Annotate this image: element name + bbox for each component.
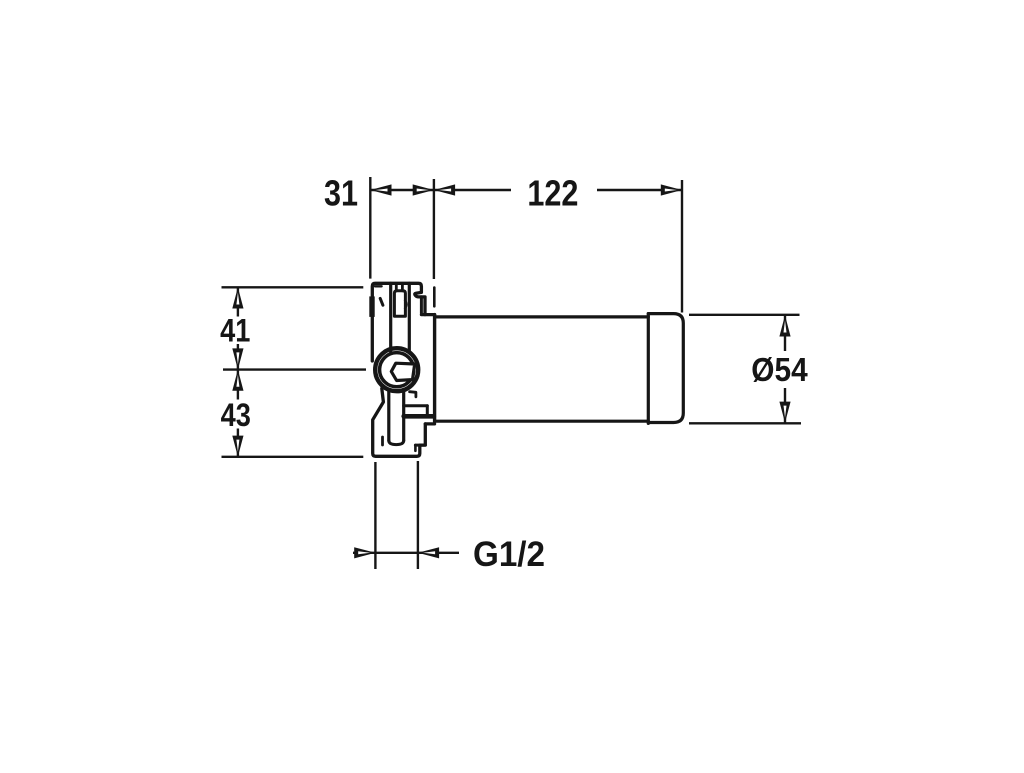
valve outer circle xyxy=(375,348,418,391)
stem right line xyxy=(408,283,411,351)
bracket lower outline xyxy=(373,389,426,457)
junction horizontal bottom xyxy=(425,422,434,425)
left edge thick blob xyxy=(369,296,374,317)
inner diagonal mark xyxy=(380,298,383,305)
step below valve vertical xyxy=(426,406,429,416)
dimension line D54 (vertical segments) xyxy=(784,315,786,351)
extension line C (cylinder end, top dim) xyxy=(681,180,683,313)
cartridge neck left xyxy=(395,283,398,290)
svg-text:122: 122 xyxy=(527,174,578,214)
bottom plate step horizontal xyxy=(415,444,425,447)
arrow G12 right (points left, outside) xyxy=(418,547,439,558)
svg-text:43: 43 xyxy=(221,398,251,434)
dimension texts xyxy=(324,174,578,214)
arrow 41 top (up) xyxy=(232,287,243,308)
arrow 31 left xyxy=(370,184,391,195)
G1/2 extension line right xyxy=(417,461,419,569)
valve inner circle xyxy=(380,353,414,387)
svg-text:G1/2: G1/2 xyxy=(473,535,545,574)
arrow D54 bottom (down) xyxy=(779,402,790,423)
cylinder bottom line xyxy=(435,420,649,423)
flange top edge segment above cylinder xyxy=(433,288,436,307)
dimension line 31 xyxy=(370,189,434,191)
arrow 122 right xyxy=(661,184,682,195)
step below valve horizontal xyxy=(404,404,428,407)
slot left line below valve xyxy=(387,392,390,441)
dimension line 122 (left segment) xyxy=(434,189,511,191)
cylinder top line xyxy=(435,315,649,318)
left extension line middle (valve axis) xyxy=(223,368,366,370)
arrow 31 right xyxy=(413,184,434,195)
dimension line 41 (vertical segments) xyxy=(237,287,239,316)
cartridge body xyxy=(394,291,405,316)
G1/2 dimension line xyxy=(353,552,418,554)
arrow D54 top (up) xyxy=(779,315,790,336)
arrowheads xyxy=(232,184,790,558)
valve square broach xyxy=(391,363,414,380)
slot U bottom xyxy=(389,441,404,445)
diameter extension line top xyxy=(689,314,800,316)
extension line B (wall face, top dim) xyxy=(433,179,435,279)
svg-text:41: 41 xyxy=(220,314,250,350)
cap joint line xyxy=(647,314,650,424)
svg-text:Ø54: Ø54 xyxy=(751,350,808,388)
arrow hollow cores xyxy=(236,189,786,555)
arrow 43 bottom (down) xyxy=(232,436,243,457)
stem left line xyxy=(389,283,392,351)
dimension line 122 (right segment) xyxy=(597,189,682,191)
flange bottom thick line xyxy=(404,414,434,419)
slot right line below valve xyxy=(402,393,405,441)
small step right of valve xyxy=(410,392,416,397)
junction horizontal top xyxy=(421,313,434,316)
right screw slot tick xyxy=(414,445,417,451)
end cap outline xyxy=(648,314,683,423)
arrow 41 bottom (down) xyxy=(232,348,243,369)
dimension line 43 (vertical segments) xyxy=(237,370,239,400)
flange right edge (junction vertical) xyxy=(433,315,436,422)
bracket plate inner right edge xyxy=(420,297,423,313)
arrow G12 left (points right, outside) xyxy=(354,547,375,558)
inner plate top tick xyxy=(375,285,382,287)
left extension line top (y=287) xyxy=(222,286,364,288)
cartridge right bulge xyxy=(405,301,406,309)
cartridge neck right xyxy=(401,283,404,290)
left extension line bottom (y=457) xyxy=(222,456,364,458)
arrow 122 left xyxy=(434,184,455,195)
svg-text:31: 31 xyxy=(324,174,358,214)
diameter extension line bottom xyxy=(689,422,801,424)
G1/2 extension line left xyxy=(374,462,376,569)
arrow 43 top (up) xyxy=(232,370,243,391)
bracket outer outline top part xyxy=(372,283,425,361)
G1/2 leader line xyxy=(418,552,459,554)
left screw slot tick xyxy=(381,437,384,445)
extension line A (left edge of bracket, top dim) xyxy=(369,177,371,279)
